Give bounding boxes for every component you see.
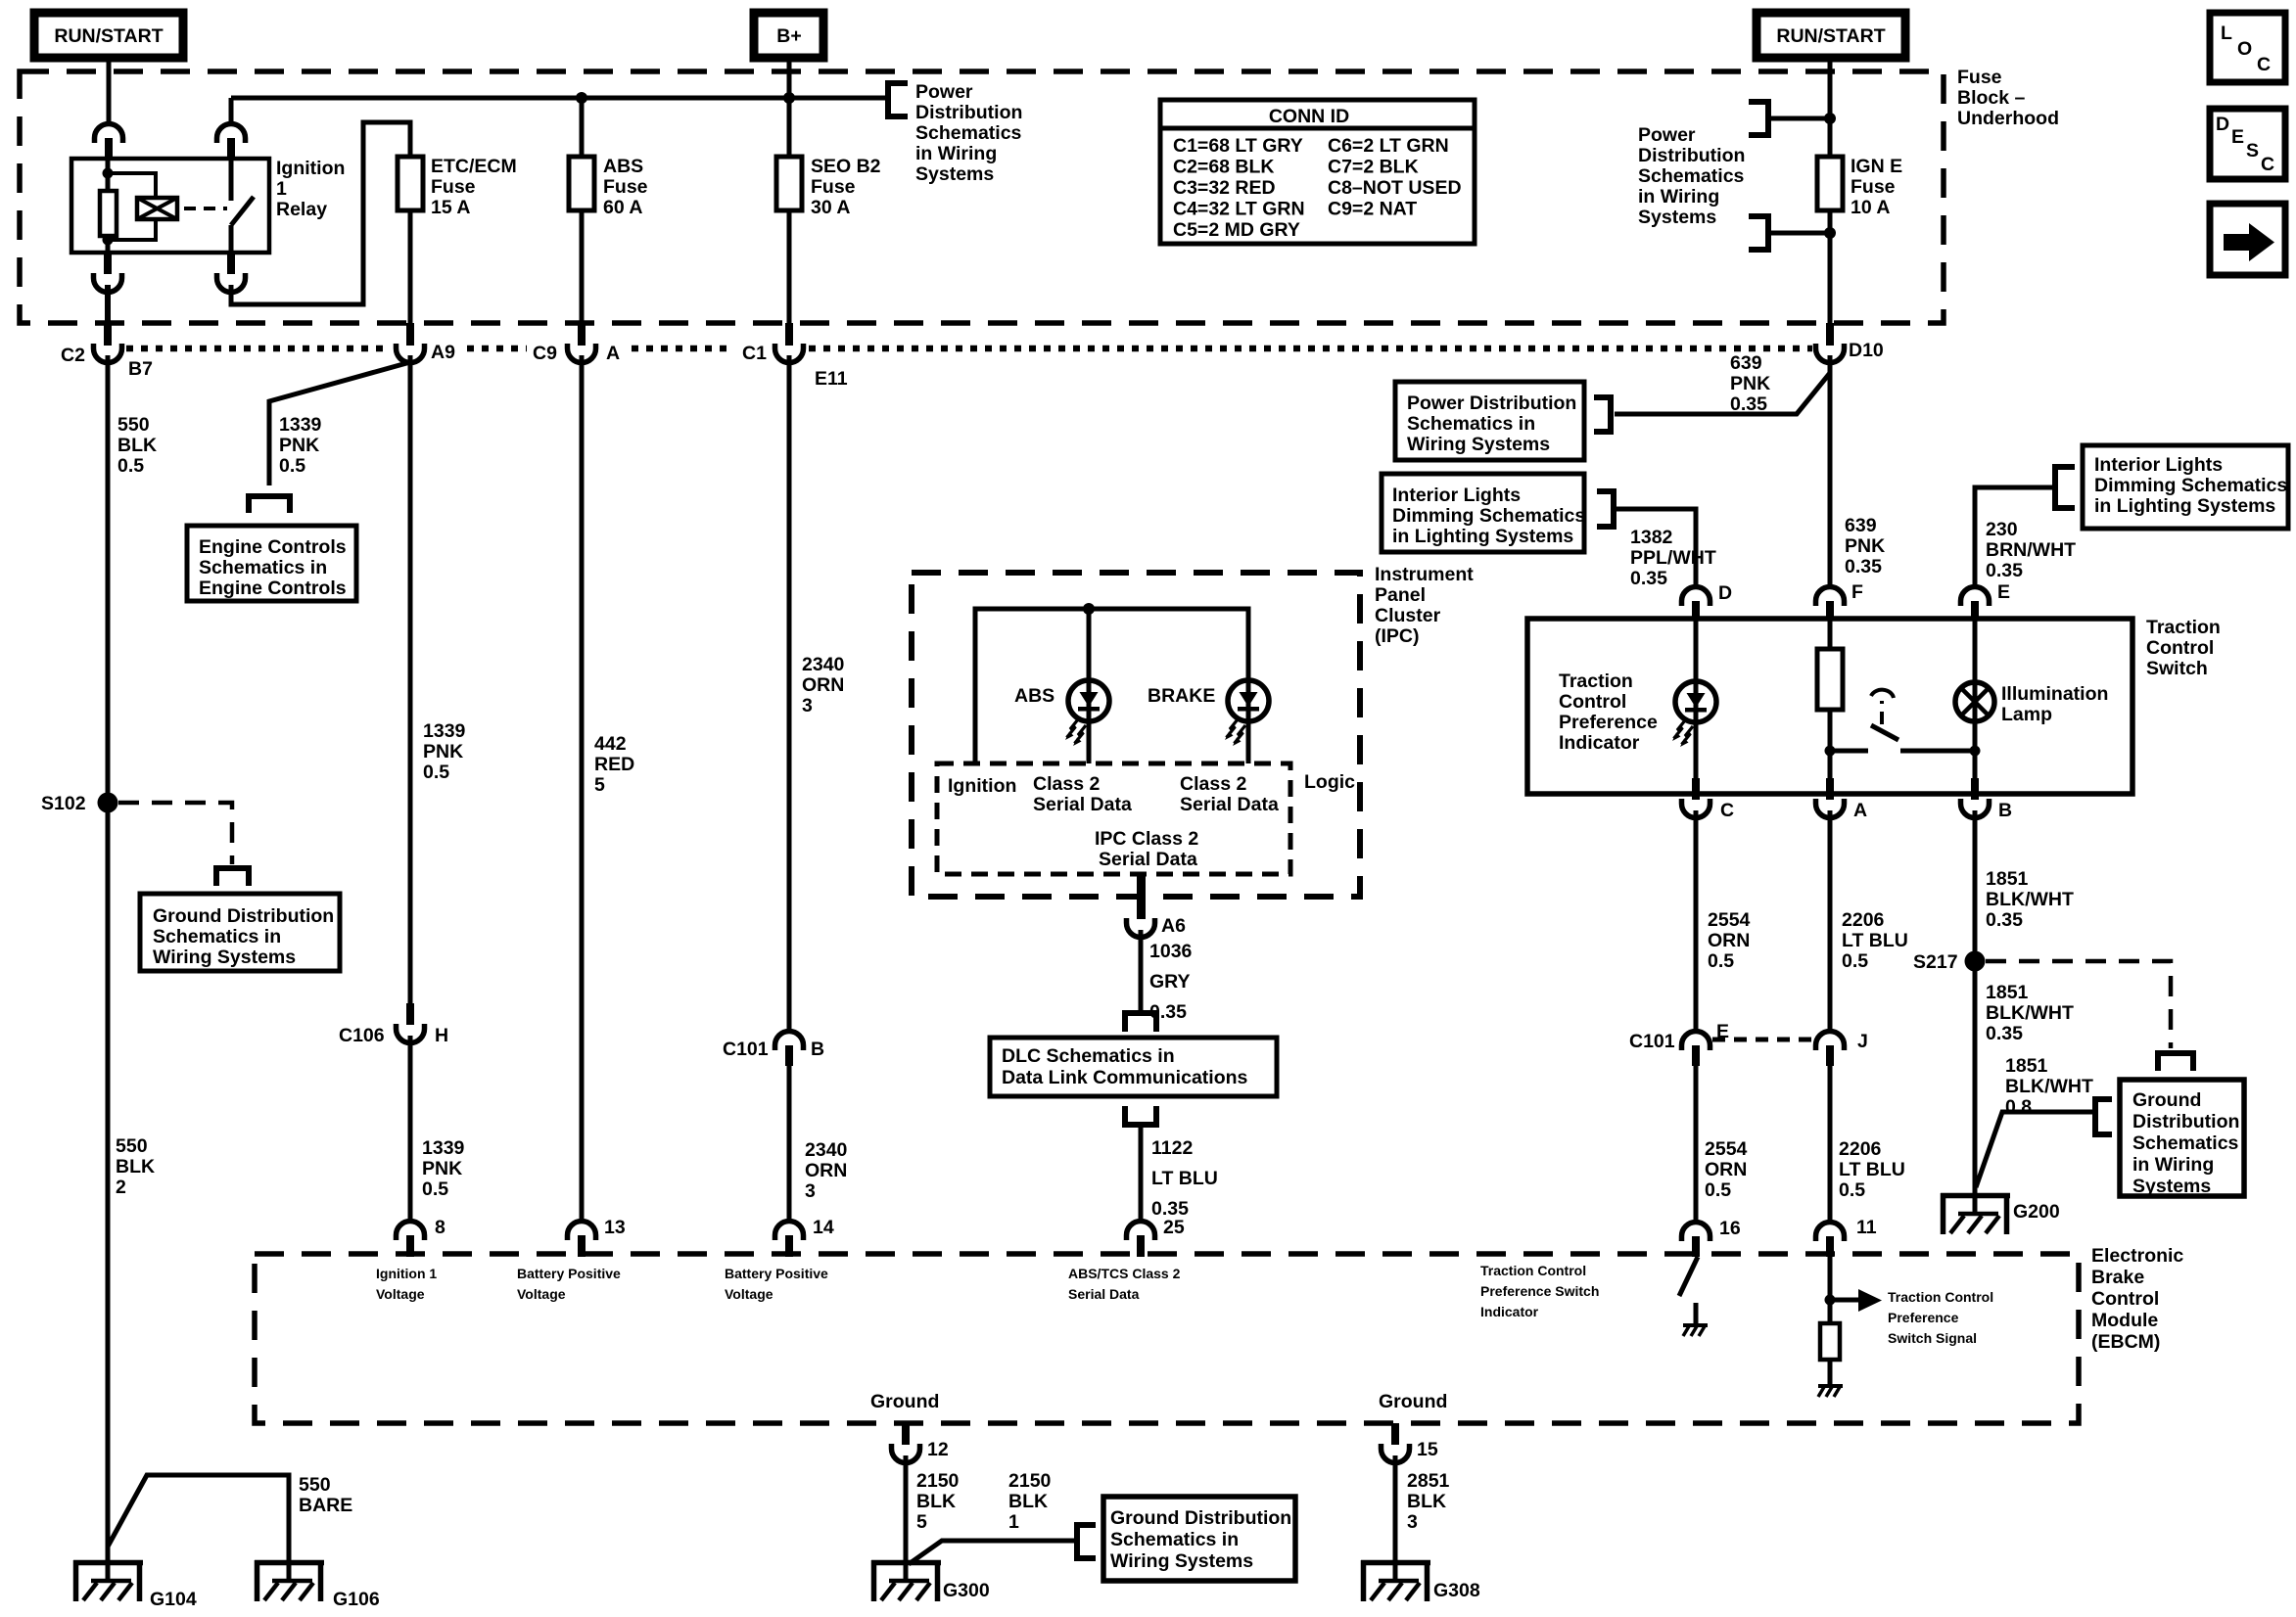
- svg-text:Illumination: Illumination: [2001, 683, 2108, 705]
- junction dot switch right: [1970, 746, 1981, 757]
- svg-text:25: 25: [1163, 1217, 1185, 1238]
- svg-text:RUN/START: RUN/START: [1776, 25, 1885, 47]
- label 2206 LT BLU 0.5: [1842, 909, 1908, 972]
- svg-text:Power Distribution: Power Distribution: [1407, 393, 1576, 414]
- connector C101 pin E: [1682, 1032, 1710, 1067]
- svg-text:Logic: Logic: [1304, 771, 1355, 793]
- svg-text:C3=32 RED: C3=32 RED: [1173, 177, 1276, 199]
- bracket above DLC box: [1125, 1013, 1156, 1032]
- svg-text:PNK: PNK: [1730, 373, 1770, 394]
- svg-text:Ground: Ground: [1379, 1391, 1447, 1412]
- svg-text:Schematics in: Schematics in: [199, 557, 327, 578]
- svg-text:Dimming Schematics: Dimming Schematics: [2094, 475, 2287, 496]
- wire 2340 ORN 3 C1 to C101: [787, 355, 792, 1032]
- junction dot pin 11: [1825, 1295, 1836, 1306]
- svg-text:1339: 1339: [279, 414, 322, 436]
- power label box RUN/START (right): [1757, 13, 1905, 58]
- wire relay switch top: [229, 98, 234, 124]
- svg-text:F: F: [1851, 581, 1863, 603]
- svg-text:0.5: 0.5: [422, 1178, 448, 1200]
- svg-text:Voltage: Voltage: [517, 1286, 566, 1302]
- bracket interior lights right box: [2055, 467, 2075, 508]
- svg-text:2851: 2851: [1407, 1470, 1450, 1492]
- svg-text:Ignition 1: Ignition 1: [376, 1266, 437, 1281]
- svg-text:2206: 2206: [1842, 909, 1885, 931]
- svg-text:15 A: 15 A: [431, 197, 470, 218]
- svg-text:550: 550: [117, 414, 150, 436]
- svg-text:Ground Distribution: Ground Distribution: [153, 905, 334, 927]
- label Illumination Lamp: [2001, 683, 2108, 725]
- svg-text:ORN: ORN: [805, 1160, 847, 1181]
- wire B+ down: [787, 58, 792, 157]
- svg-text:D: D: [2216, 114, 2229, 135]
- connector F traction switch: [1816, 587, 1845, 621]
- junction dot switch left: [1825, 746, 1836, 757]
- connector D traction switch: [1682, 587, 1710, 621]
- svg-text:2554: 2554: [1705, 1138, 1748, 1160]
- svg-text:3: 3: [1407, 1511, 1418, 1533]
- svg-text:PNK: PNK: [422, 1158, 462, 1179]
- svg-text:Schematics: Schematics: [915, 122, 1022, 144]
- junction dot IGN E lower tap: [1824, 227, 1836, 239]
- svg-text:Fuse: Fuse: [431, 176, 476, 198]
- label Traction Control Switch: [2146, 617, 2221, 679]
- connector pin 12: [892, 1423, 920, 1463]
- bracket to Power Distribution callout (top): [888, 83, 908, 116]
- label 1036 GRY 0.35: [1149, 941, 1193, 1023]
- svg-text:0.5: 0.5: [1705, 1179, 1731, 1201]
- resistor (EBCM pin 11): [1820, 1323, 1840, 1360]
- wire lower bracket to IGN E: [1768, 231, 1830, 236]
- svg-text:IGN E: IGN E: [1851, 156, 1902, 177]
- svg-text:Traction Control: Traction Control: [1888, 1289, 1993, 1305]
- label 2340 ORN 3 (lower): [805, 1139, 848, 1202]
- svg-text:GRY: GRY: [1149, 971, 1191, 993]
- svg-text:Battery Positive: Battery Positive: [517, 1266, 621, 1281]
- svg-text:30 A: 30 A: [811, 197, 850, 218]
- svg-text:LT BLU: LT BLU: [1151, 1168, 1218, 1189]
- svg-text:PPL/WHT: PPL/WHT: [1630, 547, 1716, 569]
- relay K Ignition 1 Relay box: [71, 159, 269, 253]
- svg-text:RED: RED: [594, 754, 634, 775]
- svg-text:60 A: 60 A: [603, 197, 642, 218]
- svg-text:B: B: [811, 1039, 824, 1060]
- connector C9 pin A: [568, 323, 596, 363]
- ground G106: [255, 1560, 324, 1601]
- svg-text:in Wiring: in Wiring: [2132, 1154, 2214, 1176]
- label 550 BARE: [299, 1474, 352, 1516]
- bracket power dist callout box: [1594, 397, 1611, 432]
- connector pin 13: [568, 1222, 596, 1258]
- svg-text:ETC/ECM: ETC/ECM: [431, 156, 517, 177]
- svg-text:C: C: [1720, 800, 1734, 821]
- svg-text:C: C: [2261, 154, 2274, 175]
- svg-text:LT BLU: LT BLU: [1839, 1159, 1905, 1180]
- svg-text:G104: G104: [150, 1589, 197, 1610]
- label Class 2 Serial Data (BRAKE): [1180, 773, 1279, 815]
- svg-text:BARE: BARE: [299, 1495, 352, 1516]
- svg-text:1: 1: [276, 178, 287, 200]
- LED traction control preference indicator: [1672, 619, 1716, 794]
- connector D10: [1816, 323, 1845, 363]
- svg-text:5: 5: [594, 774, 605, 796]
- svg-text:639: 639: [1730, 352, 1762, 374]
- svg-text:C5=2 MD GRY: C5=2 MD GRY: [1173, 219, 1300, 241]
- wire relay output to ETC fuse: [231, 122, 410, 304]
- label 442 RED 5: [594, 733, 634, 796]
- wire rail from relay to B+: [231, 96, 789, 101]
- svg-text:A: A: [606, 343, 620, 364]
- svg-text:A: A: [1853, 800, 1867, 821]
- svg-text:2: 2: [116, 1177, 126, 1198]
- svg-text:C9=2 NAT: C9=2 NAT: [1328, 199, 1417, 220]
- svg-text:C9: C9: [533, 343, 557, 364]
- svg-text:BRN/WHT: BRN/WHT: [1986, 539, 2076, 561]
- connector E traction switch: [1961, 587, 1990, 621]
- label 1339 PNK 0.5: [423, 720, 466, 783]
- dashed wire S217 to ground distribution callout: [1986, 961, 2171, 1048]
- svg-text:Brake: Brake: [2091, 1267, 2144, 1288]
- label Ignition 1 Relay: [276, 158, 345, 220]
- svg-text:2150: 2150: [1008, 1470, 1052, 1492]
- connector A9: [397, 323, 425, 363]
- svg-text:Electronic: Electronic: [2091, 1245, 2183, 1267]
- svg-text:A9: A9: [431, 342, 455, 363]
- svg-text:PNK: PNK: [279, 435, 319, 456]
- svg-text:Traction: Traction: [1559, 670, 1633, 692]
- svg-text:Ignition: Ignition: [948, 775, 1016, 797]
- LED ABS indicator: [1065, 609, 1109, 763]
- fuse F SEO B2 30A: [776, 157, 802, 210]
- label Class 2 Serial Data (ABS): [1033, 773, 1132, 815]
- svg-text:Dimming Schematics: Dimming Schematics: [1392, 505, 1585, 527]
- bracket ground distribution box (right side): [2095, 1099, 2112, 1134]
- wire 1036 GRY 0.35: [1139, 930, 1144, 1010]
- svg-text:C8–NOT USED: C8–NOT USED: [1328, 177, 1462, 199]
- wire 550 BARE branch: [108, 1475, 289, 1560]
- svg-text:Fuse: Fuse: [1957, 67, 2002, 88]
- wire 639 PNK 0.35 D10 to F: [1828, 355, 1833, 587]
- svg-text:Cluster: Cluster: [1375, 605, 1441, 626]
- fuse F IGN E 10A: [1817, 157, 1843, 210]
- label 230 BRN/WHT 0.35: [1986, 519, 2076, 581]
- bracket below DLC box: [1125, 1106, 1156, 1125]
- label 639 PNK 0.35 (D10): [1730, 352, 1770, 415]
- relay switch out connector (bottom right): [217, 253, 246, 293]
- svg-text:BLK: BLK: [1407, 1491, 1446, 1512]
- bracket above ground distribution box (right): [2158, 1053, 2193, 1071]
- label ABS Fuse 60A: [603, 156, 648, 218]
- svg-text:D10: D10: [1849, 340, 1884, 361]
- svg-text:1851: 1851: [1986, 982, 2029, 1003]
- svg-text:Control: Control: [2146, 637, 2214, 659]
- svg-text:Block –: Block –: [1957, 87, 2026, 109]
- svg-text:Schematics in: Schematics in: [1110, 1529, 1239, 1550]
- switch blade and contacts: [1830, 749, 1868, 754]
- svg-text:BLK: BLK: [116, 1156, 155, 1178]
- svg-text:ABS/TCS Class 2: ABS/TCS Class 2: [1068, 1266, 1181, 1281]
- svg-text:5: 5: [916, 1511, 927, 1533]
- svg-text:Ground Distribution: Ground Distribution: [1110, 1507, 1291, 1529]
- svg-text:Module: Module: [2091, 1310, 2158, 1331]
- svg-text:BLK: BLK: [916, 1491, 956, 1512]
- wire ABS LED drop: [1087, 609, 1092, 681]
- label 1382 PPL/WHT 0.35: [1630, 527, 1716, 589]
- svg-text:Preference: Preference: [1559, 712, 1658, 733]
- ground (EBCM pin 11): [1818, 1386, 1843, 1397]
- svg-text:C4=32 LT GRN: C4=32 LT GRN: [1173, 199, 1305, 220]
- label 1851 BLK/WHT 0.35 (below S217): [1986, 982, 2074, 1044]
- bracket above S102 ground distribution box: [216, 868, 249, 886]
- label Traction Control Preference Indicator: [1559, 670, 1658, 754]
- label 2851 BLK 3: [1407, 1470, 1450, 1533]
- ground G300: [871, 1560, 941, 1601]
- svg-text:Class 2: Class 2: [1180, 773, 1246, 795]
- svg-text:0.8: 0.8: [2005, 1096, 2032, 1118]
- label IGN E Fuse 10A: [1851, 156, 1902, 218]
- svg-text:Ground: Ground: [870, 1391, 939, 1412]
- svg-text:0.5: 0.5: [1839, 1179, 1865, 1201]
- svg-text:14: 14: [813, 1217, 834, 1238]
- svg-text:(IPC): (IPC): [1375, 625, 1420, 647]
- power label box B+: [754, 13, 823, 58]
- connector C101 pin B: [775, 1032, 804, 1067]
- svg-text:Switch Signal: Switch Signal: [1888, 1330, 1977, 1346]
- svg-text:Fuse: Fuse: [811, 176, 856, 198]
- wire 2554 ORN 0.5 E to pin 16: [1694, 1065, 1699, 1222]
- svg-text:Traction Control: Traction Control: [1480, 1263, 1586, 1278]
- wire B+ rail to bracket: [789, 96, 888, 101]
- wire ABS fuse feed: [580, 98, 585, 157]
- svg-text:BLK/WHT: BLK/WHT: [2005, 1076, 2093, 1097]
- svg-text:C1: C1: [742, 343, 767, 364]
- junction dot relay bottom: [103, 235, 114, 246]
- label 550 BLK 2: [116, 1135, 155, 1198]
- svg-text:ORN: ORN: [1708, 930, 1750, 951]
- wire 1851 BLK/WHT 0.35 B to S217: [1973, 810, 1978, 1193]
- label 1339 PNK 0.5 (lower): [422, 1137, 465, 1200]
- svg-text:1339: 1339: [422, 1137, 465, 1159]
- svg-text:ABS: ABS: [1014, 685, 1054, 707]
- switch blade pin 16 (EBCM): [1679, 1257, 1698, 1296]
- callout box Power Distribution Schematics in Wiring Systems (mid): [1395, 382, 1584, 460]
- wire IPC top rail: [975, 609, 1248, 763]
- svg-text:Systems: Systems: [1638, 207, 1716, 228]
- svg-text:0.5: 0.5: [117, 455, 144, 477]
- svg-text:G106: G106: [333, 1589, 380, 1610]
- junction dot ABS tap: [576, 92, 587, 104]
- svg-text:1339: 1339: [423, 720, 466, 742]
- wire RUN/START right down through fuse block: [1828, 58, 1833, 157]
- callout box Ground Distribution Schematics in Wiring Systems (bottom): [1103, 1497, 1295, 1581]
- bracket ground distribution box (bottom): [1077, 1525, 1096, 1558]
- svg-text:BLK: BLK: [1008, 1491, 1048, 1512]
- svg-text:PNK: PNK: [423, 741, 463, 762]
- svg-text:550: 550: [116, 1135, 148, 1157]
- svg-text:S217: S217: [1913, 951, 1958, 973]
- wire A down from switch: [1828, 751, 1833, 794]
- svg-text:Relay: Relay: [276, 199, 327, 220]
- label 2554 ORN 0.5: [1708, 909, 1751, 972]
- svg-text:BLK: BLK: [117, 435, 157, 456]
- svg-text:LT BLU: LT BLU: [1842, 930, 1908, 951]
- svg-text:Traction: Traction: [2146, 617, 2221, 638]
- svg-text:0.35: 0.35: [1986, 909, 2023, 931]
- relay switch wire and blade: [229, 160, 234, 201]
- traction control switch box: [1527, 619, 2132, 794]
- connector C1 pin E11: [775, 323, 804, 363]
- svg-text:Schematics: Schematics: [2132, 1132, 2239, 1154]
- label Battery Positive Voltage (14): [725, 1266, 828, 1302]
- wire ABS fuse down: [580, 210, 585, 325]
- svg-text:C106: C106: [339, 1025, 385, 1046]
- svg-text:Distribution: Distribution: [1638, 145, 1745, 166]
- svg-text:1851: 1851: [1986, 868, 2029, 890]
- svg-text:Battery Positive: Battery Positive: [725, 1266, 828, 1281]
- svg-text:A6: A6: [1161, 915, 1186, 937]
- wire 2554 ORN 0.5 C to C101 E: [1694, 810, 1699, 1032]
- svg-text:Preference: Preference: [1888, 1310, 1959, 1325]
- label 1122 LT BLU 0.35: [1151, 1137, 1218, 1220]
- svg-text:0.35: 0.35: [1845, 556, 1882, 577]
- svg-text:0.35: 0.35: [1986, 1023, 2023, 1044]
- svg-text:639: 639: [1845, 515, 1877, 536]
- svg-text:RUN/START: RUN/START: [54, 25, 163, 47]
- svg-text:Panel: Panel: [1375, 584, 1426, 606]
- connector C traction switch: [1682, 778, 1710, 818]
- wire 1339 PNK 0.5 A9 to C106: [408, 355, 413, 1005]
- wire 230 BRN/WHT to E: [1975, 487, 2055, 587]
- svg-text:ORN: ORN: [1705, 1159, 1747, 1180]
- label Traction Control Preference Switch Signal: [1888, 1289, 1993, 1346]
- label 1339 PNK 0.5 (engine controls): [279, 414, 322, 477]
- label Ignition 1 Voltage: [376, 1266, 437, 1302]
- svg-text:Indicator: Indicator: [1559, 732, 1640, 754]
- relay switch pin connector (top right): [217, 124, 246, 161]
- svg-text:Voltage: Voltage: [376, 1286, 425, 1302]
- svg-text:G300: G300: [943, 1580, 990, 1601]
- svg-text:Fuse: Fuse: [603, 176, 648, 198]
- wire 442 RED 5 C9 to pin 13: [580, 355, 585, 1221]
- svg-text:12: 12: [927, 1439, 949, 1460]
- svg-text:3: 3: [802, 695, 813, 716]
- resistor in traction switch: [1817, 619, 1843, 749]
- wire A9 diagonal to engine controls: [269, 362, 410, 485]
- svg-text:2340: 2340: [802, 654, 845, 675]
- svg-text:Systems: Systems: [915, 163, 994, 185]
- wire RUN/START left down to relay: [107, 58, 112, 124]
- dashed connector line E to J: [1712, 1038, 1814, 1042]
- svg-text:ORN: ORN: [802, 674, 844, 696]
- svg-text:BLK/WHT: BLK/WHT: [1986, 1002, 2074, 1024]
- connector pin 16: [1682, 1223, 1710, 1258]
- arrow legend box: [2210, 204, 2285, 275]
- wire 1382 PPL/WHT to D: [1614, 509, 1696, 587]
- label 639 PNK 0.35 (above F): [1845, 515, 1885, 577]
- svg-text:Wiring Systems: Wiring Systems: [1110, 1550, 1253, 1572]
- bracket above engine controls box: [249, 496, 290, 513]
- wire 1851 BLK/WHT 0.8 branch to callout: [1976, 1112, 2095, 1187]
- label Instrument Panel Cluster (IPC): [1375, 564, 1474, 647]
- wire diagonal D10 to power dist callout: [1615, 373, 1830, 414]
- svg-text:Wiring Systems: Wiring Systems: [1407, 434, 1550, 455]
- svg-text:1: 1: [1008, 1511, 1019, 1533]
- svg-text:J: J: [1857, 1031, 1868, 1052]
- IPC dashed box Instrument Panel Cluster: [912, 573, 1360, 897]
- connector pin 11: [1816, 1223, 1845, 1258]
- wire upper bracket to IGN E: [1768, 116, 1830, 121]
- callout box Ground Distribution Schematics in Wiring Systems (right): [2120, 1080, 2244, 1197]
- IPC logic dashed box: [937, 763, 1290, 874]
- wire to EBCM ground (pin 16): [1694, 1303, 1699, 1323]
- EBCM dashed box: [255, 1254, 2079, 1423]
- dashed wire S102 to ground distribution callout: [118, 803, 232, 864]
- label Battery Positive Voltage (13): [517, 1266, 621, 1302]
- svg-text:Serial Data: Serial Data: [1099, 849, 1197, 870]
- wire 1339 PNK 0.5 C106 to pin 8: [408, 1036, 413, 1221]
- label 2206 LT BLU 0.5 (lower): [1839, 1138, 1905, 1201]
- svg-text:11: 11: [1856, 1217, 1877, 1238]
- svg-text:Class 2: Class 2: [1033, 773, 1100, 795]
- svg-text:BRAKE: BRAKE: [1148, 685, 1215, 707]
- label 2150 BLK 5: [916, 1470, 960, 1533]
- relay solid state diode box: [137, 198, 177, 219]
- svg-text:H: H: [435, 1025, 448, 1046]
- svg-text:IPC Class 2: IPC Class 2: [1095, 828, 1198, 850]
- arrow traction control preference switch signal: [1830, 1289, 1882, 1312]
- connector A traction switch: [1816, 778, 1845, 818]
- svg-text:230: 230: [1986, 519, 2018, 540]
- svg-text:2206: 2206: [1839, 1138, 1882, 1160]
- svg-text:550: 550: [299, 1474, 331, 1496]
- svg-text:0.5: 0.5: [1708, 950, 1734, 972]
- svg-text:13: 13: [604, 1217, 626, 1238]
- relay coil resistor: [100, 191, 117, 236]
- connector B traction switch: [1961, 778, 1990, 818]
- svg-text:C: C: [2257, 54, 2271, 75]
- label 2554 ORN 0.5 (lower): [1705, 1138, 1748, 1201]
- svg-text:16: 16: [1719, 1218, 1741, 1239]
- bracket IGN E upper callout: [1749, 102, 1768, 135]
- LOC legend box: [2210, 13, 2285, 82]
- svg-text:1851: 1851: [2005, 1055, 2048, 1077]
- relay linkage dashes: [184, 207, 227, 210]
- svg-text:BLK/WHT: BLK/WHT: [1986, 889, 2074, 910]
- label Power Distribution Schematics in Wiring Systems (top): [915, 81, 1022, 185]
- svg-text:Underhood: Underhood: [1957, 108, 2059, 129]
- svg-text:G200: G200: [2013, 1201, 2060, 1223]
- wire relay diode branch: [108, 173, 156, 240]
- connector pin 25: [1127, 1222, 1155, 1258]
- wire 2150 BLK 1 branch: [909, 1541, 1077, 1564]
- svg-text:Lamp: Lamp: [2001, 704, 2052, 725]
- svg-text:15: 15: [1417, 1439, 1438, 1460]
- svg-text:Distribution: Distribution: [2132, 1111, 2239, 1132]
- ground G104: [73, 1560, 143, 1601]
- label 1851 BLK/WHT 0.35: [1986, 868, 2074, 931]
- wire resistor to ground: [1828, 1360, 1833, 1384]
- svg-text:3: 3: [805, 1180, 816, 1202]
- svg-text:Serial Data: Serial Data: [1033, 794, 1132, 815]
- svg-text:B+: B+: [776, 25, 801, 47]
- svg-text:Data Link Communications: Data Link Communications: [1002, 1067, 1248, 1088]
- svg-text:in Lighting Systems: in Lighting Systems: [1392, 526, 1573, 547]
- callout box Interior Lights Dimming Schematics in Lighting Systems (right): [2083, 445, 2288, 529]
- svg-text:Interior Lights: Interior Lights: [2094, 454, 2223, 476]
- fuse F ETC/ECM 15A: [398, 157, 423, 210]
- svg-text:E: E: [2231, 126, 2244, 148]
- ground G200: [1941, 1193, 2010, 1234]
